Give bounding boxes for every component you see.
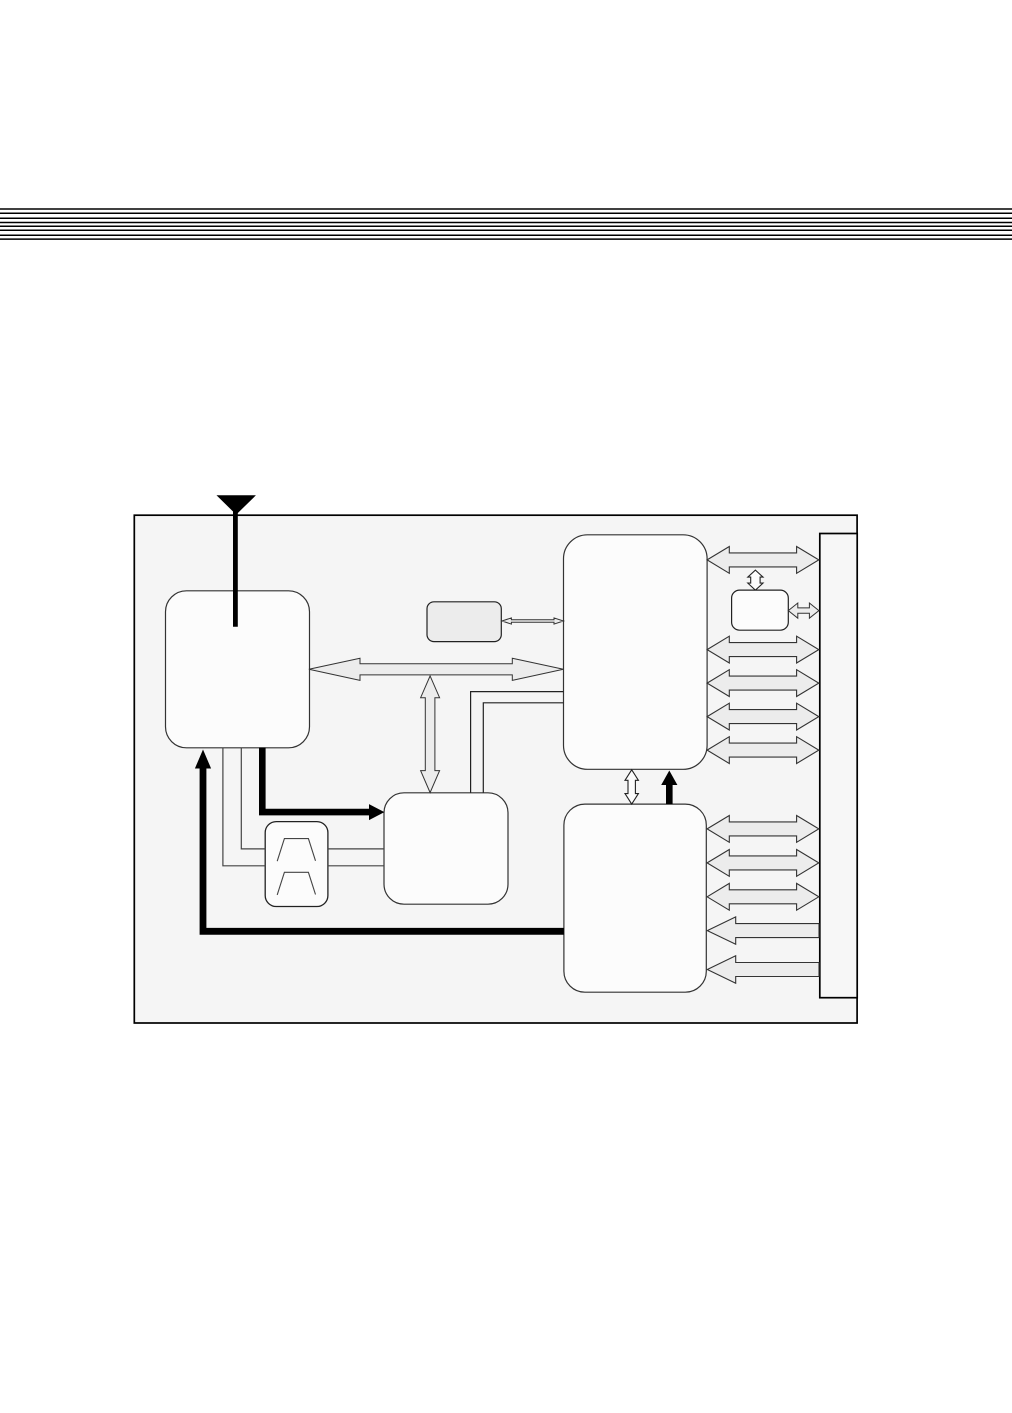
block tuner (top left): [166, 591, 310, 748]
port arrow mainIC-strip 1: [707, 547, 819, 574]
header rule 2: [0, 212, 1012, 214]
bus arrow tuner-mainIC (horizontal double): [309, 658, 564, 680]
port small vertical arrow: [748, 570, 763, 590]
port arrow mainIC-strip 5: [707, 737, 819, 764]
header rule 7: [0, 234, 1012, 236]
port arrow DSP-strip 3: [707, 883, 819, 910]
IR box (small, right): [732, 590, 789, 630]
block DSP (lower right): [564, 804, 706, 992]
thin arrow memory-mainIC: [502, 618, 564, 624]
header rule 5: [0, 225, 1012, 227]
thick signal tuner to IF with arrowhead: [262, 748, 384, 821]
port arrow DSP-strip 2: [707, 850, 819, 877]
small arrow IRbox-strip: [788, 603, 819, 618]
header rule 1: [0, 208, 1012, 210]
wire filter-IF lower: [328, 865, 384, 867]
header rule 3: [0, 217, 1012, 219]
memory box (small gray, top middle): [427, 602, 501, 642]
header rule 8: [0, 238, 1012, 240]
block IF (lower middle): [384, 793, 508, 904]
thick signal DSP to tuner with arrowhead: [195, 750, 564, 932]
wire tuner-filter upper: [241, 748, 265, 849]
wire tuner-filter lower: [223, 748, 265, 866]
block main IC (top right): [564, 535, 708, 770]
filter box with trapezoids: [265, 822, 328, 907]
bus arrow vertical to IF block: [421, 676, 440, 793]
thick arrow DSP to mainIC: [661, 771, 677, 805]
diagram frame: [134, 515, 857, 1023]
port arrow mainIC-strip 3: [707, 670, 819, 697]
header rule 6: [0, 229, 1012, 231]
port arrow mainIC-strip 2: [707, 636, 819, 663]
small double arrow mainIC-DSP: [625, 770, 638, 804]
connector strip J1: [820, 534, 857, 998]
port arrow DSP-strip 1: [707, 816, 819, 843]
wire channel mainIC to IF (L-bus outer): [471, 692, 564, 793]
wire filter-IF upper: [328, 848, 384, 850]
wire channel mainIC to IF (L-bus inner): [483, 703, 563, 793]
antenna: [218, 496, 255, 627]
header rule 4: [0, 222, 1012, 224]
input arrow strip-DSP 1: [707, 917, 819, 944]
port arrow mainIC-strip 4: [707, 703, 819, 730]
input arrow strip-DSP 2: [707, 956, 819, 983]
